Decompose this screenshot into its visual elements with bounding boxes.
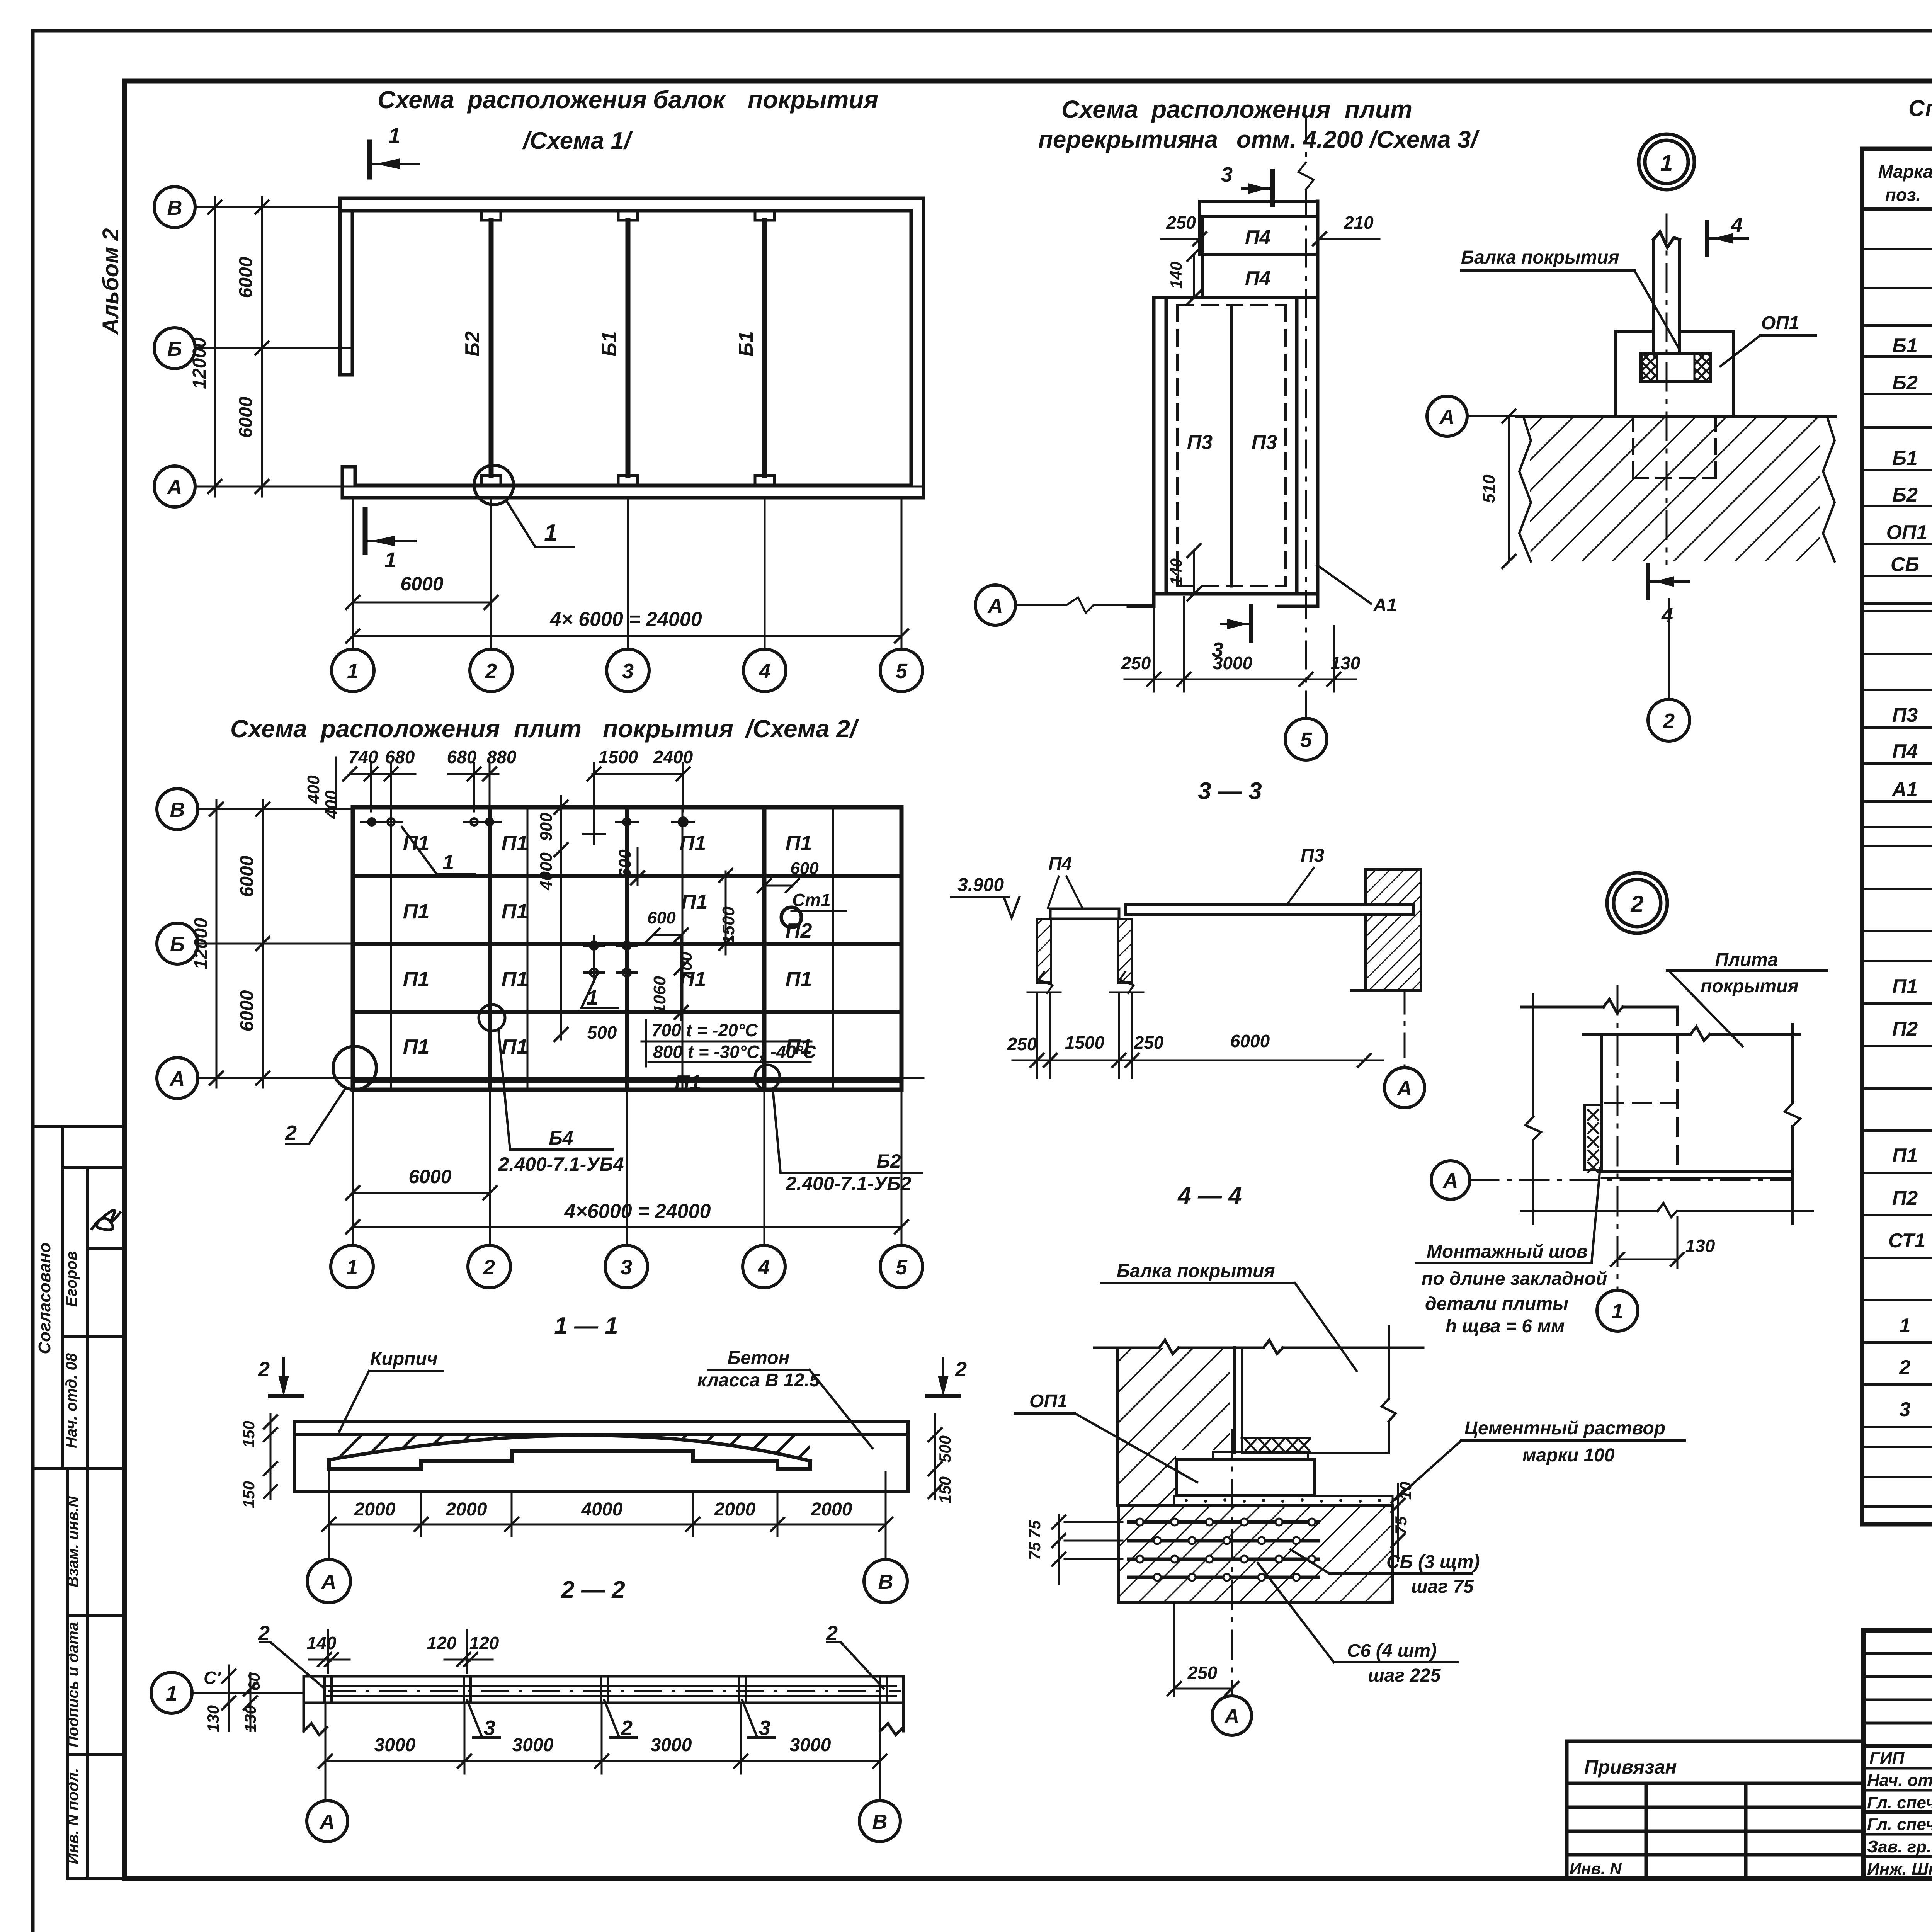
П4 slab cell 2	[1202, 254, 1318, 298]
beam Б1 on axis 4	[762, 220, 767, 476]
svg-text:2: 2	[258, 1622, 270, 1645]
dim 700/1060 vertical	[680, 935, 682, 1020]
svg-text:140: 140	[307, 1633, 337, 1653]
slab field outer rect	[353, 807, 901, 1090]
axis lines	[198, 809, 923, 1078]
svg-text:2: 2	[621, 1716, 633, 1740]
svg-text:4: 4	[759, 660, 770, 683]
svg-text:Ст1: Ст1	[792, 890, 831, 910]
svg-text:1: 1	[1612, 1300, 1623, 1323]
svg-text:Б1: Б1	[735, 331, 757, 357]
svg-text:4: 4	[1661, 604, 1673, 627]
plate left edge	[1600, 1034, 1603, 1172]
node 1 callout leader	[506, 500, 574, 547]
svg-text:балок: балок	[653, 86, 726, 114]
walls of schema 1 plan	[340, 198, 923, 498]
svg-text:А: А	[321, 1570, 337, 1594]
grid column lines in plan	[490, 807, 764, 1090]
grid bubble 4	[743, 649, 786, 692]
approval stamp box (Согласовано)	[33, 1126, 126, 1468]
svg-text:А1: А1	[1373, 595, 1397, 616]
header row line	[1862, 207, 1932, 211]
NODE 2 : slab joint plan detail	[1417, 873, 1827, 1337]
svg-text:А: А	[319, 1810, 335, 1833]
svg-text:1: 1	[1900, 1315, 1911, 1337]
svg-text:П1: П1	[675, 1071, 701, 1094]
svg-text:600: 600	[790, 859, 819, 878]
svg-text:П4: П4	[1245, 226, 1270, 249]
SPECIFICATION TABLE	[1862, 96, 1932, 1524]
vaulted slab arc	[329, 1435, 810, 1461]
svg-text:3: 3	[1212, 638, 1223, 662]
svg-text:Б1: Б1	[1892, 335, 1918, 357]
svg-text:1: 1	[346, 1256, 358, 1279]
svg-text:П4: П4	[1892, 740, 1918, 763]
left dims 75 75	[1058, 1515, 1060, 1584]
grid bubble 5	[880, 649, 923, 692]
svg-text:Егоров: Егоров	[63, 1251, 80, 1307]
svg-text:Марка,: Марка,	[1878, 162, 1932, 182]
bearing pad ОП1	[1616, 331, 1733, 415]
top small dims 740 680 / 680 880 / 1500 2400	[350, 763, 683, 825]
svg-text:140: 140	[1167, 262, 1185, 289]
dim line 250/1500/250/6000	[1012, 992, 1383, 1078]
bottom-left pier	[342, 467, 355, 498]
svg-text:П2: П2	[1892, 1018, 1918, 1040]
right cut line vertical	[1785, 1024, 1800, 1223]
svg-text:Подпись и дата: Подпись и дата	[65, 1622, 82, 1747]
svg-text:1060: 1060	[650, 976, 669, 1014]
leader 2 top-right	[827, 1642, 884, 1689]
svg-text:1: 1	[166, 1682, 177, 1705]
svg-text:510: 510	[1480, 474, 1498, 503]
beam sides vertical	[1233, 1348, 1236, 1453]
svg-text:3000: 3000	[790, 1735, 831, 1755]
svg-text:5: 5	[1300, 728, 1312, 752]
svg-text:3: 3	[484, 1716, 495, 1740]
svg-text:Нач. отд. 08: Нач. отд. 08	[63, 1353, 80, 1448]
row lines	[1862, 249, 1932, 1507]
svg-text:Инв. N подл.: Инв. N подл.	[65, 1768, 82, 1864]
dim 120 120	[444, 1630, 493, 1673]
axis А line with break	[1015, 597, 1154, 613]
svg-text:1500: 1500	[719, 906, 738, 944]
svg-text:800 t = -30°C; -40°C: 800 t = -30°C; -40°C	[653, 1042, 816, 1062]
svg-text:120: 120	[469, 1633, 499, 1653]
svg-text:П4: П4	[1048, 854, 1072, 874]
svg-text:3000: 3000	[374, 1735, 416, 1755]
dim line 4x6000=24000	[353, 635, 901, 637]
svg-text:Инж. Шк.: Инж. Шк.	[1867, 1860, 1932, 1879]
svg-text:740: 740	[349, 747, 378, 767]
main hall walls	[1128, 201, 1318, 606]
svg-text:400: 400	[304, 775, 323, 804]
table outer border	[1862, 149, 1932, 1524]
beam Б2 on axis 2	[489, 220, 494, 476]
svg-text:6000: 6000	[236, 257, 256, 298]
axis bubble 1 left	[151, 1672, 192, 1713]
main stamp left table lines	[1863, 1630, 1932, 1879]
svg-text:П1: П1	[681, 890, 708, 913]
П3 slab passing through wall	[1364, 906, 1413, 913]
svg-text:2: 2	[955, 1358, 967, 1381]
svg-text:шаг 225: шаг 225	[1368, 1665, 1441, 1686]
view mark 2 left	[270, 1358, 302, 1396]
svg-text:В: В	[872, 1810, 888, 1833]
beam sides	[1653, 232, 1680, 354]
svg-text:1: 1	[388, 123, 400, 148]
axis bubble В	[864, 1560, 907, 1603]
bottom dim line 250/3000/130	[1124, 597, 1356, 692]
section mark 1 bottom	[365, 509, 415, 553]
axis circle Б	[157, 923, 198, 964]
grid bubble 5	[1285, 718, 1327, 760]
svg-text:600: 600	[616, 849, 634, 878]
svg-text:П3: П3	[1187, 431, 1213, 454]
main stamp outer	[1863, 1630, 1932, 1879]
slab joint thin lines	[391, 807, 833, 1090]
svg-text:Б4: Б4	[549, 1127, 573, 1149]
plate bottom double edge	[1602, 1170, 1793, 1173]
svg-text:130: 130	[204, 1705, 222, 1732]
svg-text:П4: П4	[1245, 267, 1270, 290]
svg-text:на: на	[1190, 126, 1218, 153]
svg-text:расположения: расположения	[467, 86, 647, 114]
svg-text:ОП1: ОП1	[1029, 1391, 1068, 1412]
bottom dim 250	[1174, 1604, 1232, 1696]
svg-text:2000: 2000	[354, 1499, 396, 1520]
svg-text:4×6000 = 24000: 4×6000 = 24000	[564, 1200, 711, 1223]
pad anchor cross-hatch right	[1694, 354, 1711, 381]
svg-text:4000: 4000	[581, 1499, 623, 1520]
svg-text:3: 3	[1221, 163, 1233, 186]
bottom cut line	[1521, 1203, 1813, 1217]
grid bubble 1	[332, 649, 374, 692]
svg-text:Альбом 2: Альбом 2	[98, 228, 123, 335]
buried pad dashed	[1633, 416, 1716, 478]
svg-text:6000: 6000	[400, 573, 443, 595]
axis line В	[195, 206, 340, 208]
svg-text:А: А	[1439, 405, 1455, 429]
axis line through strip	[192, 1692, 304, 1694]
dim 140 upper	[1193, 254, 1195, 298]
svg-text:60: 60	[245, 1673, 263, 1691]
svg-text:3: 3	[759, 1716, 770, 1740]
svg-text:детали плиты: детали плиты	[1425, 1294, 1568, 1314]
axis circle В	[154, 187, 195, 228]
svg-text:880: 880	[487, 747, 517, 767]
axis circle А	[157, 1058, 198, 1099]
svg-text:Цементный раствор: Цементный раствор	[1464, 1418, 1665, 1439]
svg-text:2.400-7.1-УБ2: 2.400-7.1-УБ2	[786, 1173, 912, 1194]
svg-text:12000: 12000	[191, 918, 211, 969]
svg-text:СТ1: СТ1	[1888, 1230, 1925, 1252]
svg-text:1: 1	[544, 520, 557, 546]
svg-text:6000: 6000	[1230, 1031, 1270, 1051]
Egorov signature	[92, 1210, 120, 1230]
dim 210 top-right	[1318, 238, 1379, 240]
svg-text:П1: П1	[502, 1035, 528, 1058]
svg-text:Инв. N: Инв. N	[1570, 1859, 1622, 1878]
axis bubble В	[859, 1801, 900, 1842]
axis line А	[195, 486, 923, 488]
svg-text:А: А	[1396, 1077, 1412, 1100]
SECTION 2-2	[151, 1577, 903, 1842]
svg-text:П1: П1	[502, 968, 528, 991]
svg-text:1500: 1500	[599, 747, 638, 767]
Привязан table	[1567, 1741, 1863, 1879]
svg-text:2000: 2000	[446, 1499, 487, 1520]
svg-text:поз.: поз.	[1885, 185, 1921, 205]
top wall	[340, 197, 923, 200]
axis 2 centreline to bubble А	[1231, 1430, 1233, 1696]
slab strip outline	[304, 1676, 903, 1735]
svg-text:250: 250	[1007, 1034, 1037, 1054]
svg-text:Зав. гр.: Зав. гр.	[1867, 1837, 1931, 1856]
svg-text:П1: П1	[680, 832, 706, 855]
anchor plus marks top row	[361, 818, 694, 844]
svg-text:П1: П1	[680, 968, 706, 991]
axis line Б	[195, 347, 351, 349]
svg-text:Б: Б	[167, 337, 182, 361]
brick wall hatched	[1117, 1348, 1230, 1505]
bottom dim line 3000 x4	[325, 1705, 880, 1801]
svg-text:П1: П1	[502, 900, 528, 923]
svg-text:А: А	[1224, 1705, 1240, 1728]
axis А bubble	[1427, 396, 1467, 436]
grid bubble 3	[605, 1245, 648, 1288]
node 2 double circle	[1607, 873, 1667, 933]
svg-text:12000: 12000	[189, 337, 210, 389]
svg-text:П1: П1	[403, 900, 430, 923]
svg-text:Взам. инв.N: Взам. инв.N	[65, 1496, 82, 1587]
open space bottom line	[1242, 1452, 1389, 1454]
right dims 10 and 75	[1397, 1484, 1399, 1561]
svg-text:П1: П1	[502, 832, 528, 855]
svg-text:А: А	[167, 476, 182, 499]
SECTION 4-4 : beam bearing detail	[1015, 1182, 1685, 1735]
slab middle joint	[1230, 305, 1233, 586]
svg-text:Плита: Плита	[1715, 950, 1778, 970]
svg-text:1: 1	[347, 660, 359, 683]
weld x marks strip	[1242, 1437, 1310, 1439]
NODE 1 : beam bearing on wall	[1427, 134, 1835, 741]
svg-text:Балка покрытия: Балка покрытия	[1461, 247, 1619, 268]
leader 1 mid	[582, 972, 618, 1008]
Ст1 sleeve circle	[781, 907, 801, 927]
svg-text:75: 75	[1026, 1520, 1044, 1538]
axis bubble А	[307, 1560, 350, 1603]
svg-text:3000: 3000	[651, 1735, 692, 1755]
svg-text:С′: С′	[204, 1668, 221, 1688]
svg-text:А1: А1	[1891, 778, 1918, 801]
dim 600 horizontal mid	[653, 934, 681, 936]
svg-text:П3: П3	[1892, 704, 1918, 726]
svg-text:Б1: Б1	[1892, 447, 1918, 469]
stepped slab soffit	[329, 1451, 810, 1469]
svg-text:900: 900	[537, 813, 556, 841]
node 1 callout circle	[474, 465, 514, 505]
svg-text:Б2: Б2	[1892, 372, 1918, 394]
grid bubble 2	[1648, 699, 1690, 741]
section mark 4 bottom	[1646, 565, 1650, 598]
grid bubble 4	[743, 1245, 785, 1288]
axis А dash-dot line	[1470, 1179, 1793, 1181]
svg-text:250: 250	[1166, 213, 1196, 233]
svg-text:3: 3	[1900, 1398, 1911, 1421]
svg-text:1: 1	[384, 548, 396, 572]
bottom dim line 2000x2 4000 2000x2	[329, 1524, 886, 1526]
svg-text:4000: 4000	[537, 852, 556, 891]
svg-text:2: 2	[285, 1121, 297, 1145]
wall break marks	[1519, 416, 1531, 561]
svg-text:120: 120	[427, 1633, 457, 1653]
view mark 2 right	[927, 1358, 959, 1396]
svg-text:2: 2	[1899, 1356, 1911, 1379]
TITLE BLOCK	[1567, 1630, 1932, 1879]
svg-text:СБ (3 щт): СБ (3 щт)	[1386, 1552, 1480, 1572]
left wall hatched	[1037, 919, 1051, 983]
grid verticals to bubbles	[353, 1090, 901, 1245]
svg-text:П1: П1	[1892, 975, 1918, 998]
П4 slab cell 1	[1202, 216, 1318, 254]
dim 140 lower	[1193, 551, 1195, 594]
SECTION 1-1	[240, 1313, 967, 1603]
svg-text:П2: П2	[1892, 1187, 1918, 1209]
SECTION 3-3	[951, 778, 1425, 1108]
axis А bubble below	[1384, 1068, 1425, 1108]
svg-text:2: 2	[826, 1622, 838, 1645]
svg-text:250: 250	[1121, 653, 1151, 673]
svg-text:В: В	[878, 1570, 893, 1594]
svg-text:600: 600	[647, 908, 676, 927]
svg-text:6000: 6000	[237, 855, 257, 897]
cut line left vertical	[1526, 995, 1541, 1223]
svg-text:4 — 4: 4 — 4	[1177, 1182, 1242, 1209]
plate band under weld	[1213, 1452, 1308, 1460]
SCHEMA 3 : floor slabs at elev. 4.200	[975, 95, 1480, 760]
svg-text:250: 250	[1134, 1032, 1164, 1053]
svg-text:4: 4	[758, 1256, 770, 1279]
axis А bubble	[975, 585, 1015, 625]
svg-text:Схема: Схема	[1061, 95, 1138, 123]
dim 250 top-left	[1161, 238, 1202, 240]
axis А line	[1467, 415, 1519, 417]
svg-text:П2: П2	[786, 919, 812, 942]
svg-text:2.400-7.1-УБ4: 2.400-7.1-УБ4	[498, 1153, 624, 1175]
svg-text:140: 140	[1167, 558, 1185, 585]
dim 510	[1508, 416, 1510, 561]
П4 slab strip	[1050, 909, 1119, 919]
slab end joints	[325, 1676, 887, 1703]
svg-text:130: 130	[1685, 1236, 1715, 1256]
dim 130	[1617, 1259, 1677, 1260]
svg-text:Привязан: Привязан	[1584, 1756, 1677, 1778]
svg-text:А: А	[1442, 1169, 1458, 1192]
vertical dim line 6000+6000	[215, 197, 262, 497]
svg-text:П1: П1	[786, 968, 812, 991]
node 1 double circle	[1639, 134, 1694, 190]
svg-text:П1: П1	[403, 968, 430, 991]
vertical dim lines 6000/6000 and 12000	[216, 800, 263, 1088]
svg-text:4: 4	[1731, 213, 1743, 236]
svg-text:130: 130	[241, 1705, 259, 1732]
svg-text:ОП1: ОП1	[1761, 313, 1799, 333]
svg-text:класса В 12.5: класса В 12.5	[697, 1370, 820, 1391]
svg-text:h щва = 6 мм: h щва = 6 мм	[1446, 1316, 1565, 1337]
svg-text:плит: плит	[514, 715, 582, 743]
grid bubble 1	[1597, 1290, 1638, 1331]
svg-text:75: 75	[1026, 1542, 1044, 1560]
svg-text:покрытия: покрытия	[603, 715, 733, 743]
dim line 6000 (1-2)	[353, 1192, 490, 1194]
svg-text:расположения: расположения	[1151, 95, 1331, 123]
dim line 4x6000=24000	[353, 1226, 901, 1228]
svg-text:покрытия: покрытия	[1701, 976, 1799, 997]
section mark 4 top	[1705, 222, 1709, 255]
leader 1 upper	[402, 827, 475, 874]
svg-text:перекрытия: перекрытия	[1038, 126, 1191, 153]
svg-text:Нач. отд.: Нач. отд.	[1867, 1771, 1932, 1790]
SCHEMA 1 : plan of roof beams	[154, 86, 923, 692]
svg-text:500: 500	[936, 1435, 954, 1463]
svg-text:6000: 6000	[237, 990, 257, 1031]
beam Б1 on axis 3	[626, 220, 631, 476]
hidden beam dashed	[1605, 1007, 1677, 1172]
svg-text:П1: П1	[1892, 1145, 1918, 1167]
leader 2 top-left	[260, 1642, 325, 1689]
svg-text:4× 6000 = 24000: 4× 6000 = 24000	[549, 608, 702, 631]
beam seat notches bottom wall	[481, 476, 501, 485]
stamp main horizontals	[1863, 1630, 1932, 1879]
svg-text:по длине закладной: по длине закладной	[1422, 1269, 1607, 1289]
svg-text:Б2: Б2	[876, 1150, 901, 1172]
svg-text:1: 1	[1660, 151, 1673, 176]
right cut line	[1382, 1327, 1396, 1453]
axis bubble А	[307, 1801, 348, 1842]
svg-text:В: В	[170, 798, 185, 821]
svg-text:Бетон: Бетон	[727, 1348, 789, 1368]
foundation hatched band	[1119, 1505, 1393, 1602]
svg-text:2400: 2400	[653, 747, 693, 767]
top edge line	[1521, 999, 1677, 1013]
axis bubble А	[1212, 1696, 1252, 1735]
dim 900/4000 vertical near axis 3	[560, 796, 562, 1039]
svg-text:5: 5	[896, 1256, 908, 1279]
П3 slab outlines dashed	[1177, 305, 1286, 586]
dim 140	[309, 1630, 350, 1673]
svg-text:1500: 1500	[1065, 1032, 1105, 1053]
svg-text:2: 2	[1630, 891, 1643, 917]
centreline axis 5 vertical	[1298, 116, 1314, 719]
svg-text:150: 150	[240, 1421, 258, 1448]
svg-text:75: 75	[1392, 1516, 1410, 1534]
svg-text:В: В	[167, 196, 182, 219]
svg-text:П3: П3	[1252, 431, 1277, 454]
svg-text:2: 2	[483, 1256, 495, 1279]
dim 600 top right	[764, 885, 793, 887]
svg-text:П3: П3	[1301, 845, 1325, 866]
pad anchor cross-hatch left	[1641, 354, 1657, 381]
leader 2 (axis 3 joint)	[604, 1700, 637, 1738]
svg-text:Б: Б	[170, 933, 185, 956]
callout Б2 circle axis А	[755, 1065, 780, 1090]
svg-text:Б2: Б2	[461, 331, 484, 357]
inventory stamp box	[68, 1468, 126, 1879]
svg-text:3.900: 3.900	[957, 875, 1004, 895]
svg-text:10: 10	[1396, 1482, 1415, 1500]
upper plate edge line	[1583, 1027, 1799, 1041]
